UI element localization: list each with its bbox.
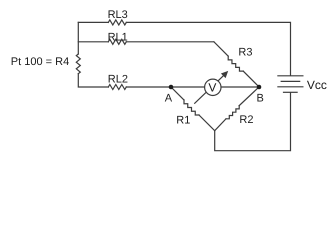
svg-text:RL1: RL1 [108,31,128,43]
resistor RL3 (zigzag on top rail) [108,20,126,25]
wire RL2 to node A [126,86,171,88]
wire left rail bottom with corner into RL2 [78,74,108,87]
battery Vcc plate 3 long [278,86,303,88]
resistor RL1 (zigzag) [108,39,126,44]
wire diagonal node A down to R1 [171,87,184,100]
battery Vcc plate 4 short [284,91,298,93]
wire RL1 run [78,41,214,43]
resistor R2 (staircase zigzag on diagonal) [226,106,239,119]
voltmeter body circle [205,79,221,95]
wire left rail top (R4 top lead, junction of RL3 and RL1 leads) [77,22,79,54]
wire top rail with corner down to battery plus [78,22,290,75]
resistor R1 (staircase zigzag on diagonal) [184,100,199,115]
resistor R3 (staircase zigzag on diagonal) [228,56,243,71]
svg-text:Pt 100 = R4: Pt 100 = R4 [11,56,69,68]
resistor R4 (Pt100, vertical zigzag) [76,54,80,74]
wire diagonal from RL1 down to R3 [214,42,228,56]
svg-text:A: A [165,92,173,104]
voltmeter arrow shaft [195,73,226,103]
wire from R2 to node B [239,87,259,106]
voltmeter arrowhead [221,71,228,78]
wire from bottom vertex up to R2 [215,119,226,131]
resistor RL2 (zigzag) [108,85,126,90]
battery Vcc plate 1 long [278,75,303,77]
wire from R3 to node B [243,71,259,87]
svg-text:R3: R3 [238,47,252,59]
node B junction dot [257,85,262,90]
svg-text:R2: R2 [239,114,253,126]
svg-text:B: B [257,93,264,105]
svg-text:Vcc: Vcc [307,78,327,92]
svg-text:V: V [208,80,216,94]
battery Vcc plate 2 medium [281,80,300,82]
wire node A through voltmeter to node B [171,86,259,88]
svg-text:RL3: RL3 [108,9,128,21]
svg-text:RL2: RL2 [108,74,128,86]
node A junction dot [169,85,174,90]
wire from R1 to bottom vertex [199,115,215,131]
svg-text:R1: R1 [176,114,190,126]
wire bottom rail from vertex to battery minus [215,93,291,151]
